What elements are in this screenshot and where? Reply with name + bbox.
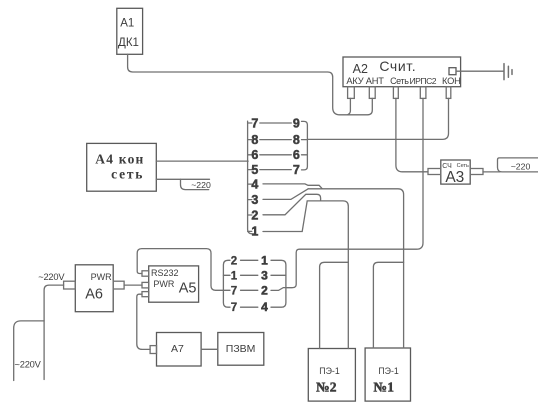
svg-text:ПЗВМ: ПЗВМ bbox=[226, 343, 256, 355]
svg-text:7: 7 bbox=[293, 163, 300, 177]
svg-text:RS232: RS232 bbox=[151, 268, 179, 278]
svg-text:~220: ~220 bbox=[511, 162, 531, 172]
svg-text:9: 9 bbox=[293, 116, 300, 130]
svg-text:АНТ: АНТ bbox=[366, 76, 385, 86]
svg-text:1: 1 bbox=[231, 270, 238, 282]
svg-text:Счит.: Счит. bbox=[379, 58, 416, 74]
svg-text:4: 4 bbox=[261, 300, 268, 314]
svg-text:8: 8 bbox=[293, 133, 300, 147]
svg-text:1: 1 bbox=[251, 225, 258, 239]
svg-text:А4 кон: А4 кон bbox=[95, 151, 144, 166]
svg-text:А5: А5 bbox=[179, 280, 197, 296]
svg-text:6: 6 bbox=[251, 148, 258, 162]
svg-text:~220: ~220 bbox=[191, 180, 211, 190]
svg-text:3: 3 bbox=[251, 193, 258, 207]
svg-text:А7: А7 bbox=[171, 343, 184, 355]
svg-text:сеть: сеть bbox=[111, 166, 144, 181]
svg-text:3: 3 bbox=[261, 268, 268, 282]
svg-text:PWR: PWR bbox=[91, 272, 112, 282]
svg-text:Сеть: Сеть bbox=[390, 76, 409, 86]
svg-text:8: 8 bbox=[251, 133, 258, 147]
svg-text:А1: А1 bbox=[120, 18, 134, 30]
svg-text:ИРПС2: ИРПС2 bbox=[410, 76, 437, 86]
svg-text:2: 2 bbox=[251, 208, 258, 222]
svg-text:2: 2 bbox=[261, 283, 268, 297]
svg-text:КОН: КОН bbox=[442, 76, 461, 86]
svg-text:А6: А6 bbox=[85, 287, 103, 303]
svg-text:1: 1 bbox=[261, 253, 268, 267]
svg-text:А3: А3 bbox=[445, 169, 464, 186]
svg-text:АКУ: АКУ bbox=[346, 76, 363, 86]
svg-text:~220V: ~220V bbox=[15, 360, 42, 370]
svg-text:6: 6 bbox=[293, 148, 300, 162]
svg-text:ПЭ-1: ПЭ-1 bbox=[378, 366, 399, 376]
svg-text:ДК1: ДК1 bbox=[118, 37, 139, 49]
svg-text:А2: А2 bbox=[353, 62, 368, 76]
svg-text:№1: №1 bbox=[373, 380, 394, 395]
svg-text:PWR: PWR bbox=[153, 279, 174, 289]
svg-text:№2: №2 bbox=[316, 380, 337, 395]
svg-text:ПЭ-1: ПЭ-1 bbox=[319, 366, 340, 376]
svg-text:7: 7 bbox=[231, 302, 237, 314]
svg-text:7: 7 bbox=[231, 285, 237, 297]
svg-text:2: 2 bbox=[231, 255, 237, 267]
svg-text:4: 4 bbox=[251, 177, 258, 191]
svg-text:~220V: ~220V bbox=[38, 272, 65, 282]
svg-text:7: 7 bbox=[251, 116, 258, 130]
svg-text:5: 5 bbox=[251, 163, 258, 177]
